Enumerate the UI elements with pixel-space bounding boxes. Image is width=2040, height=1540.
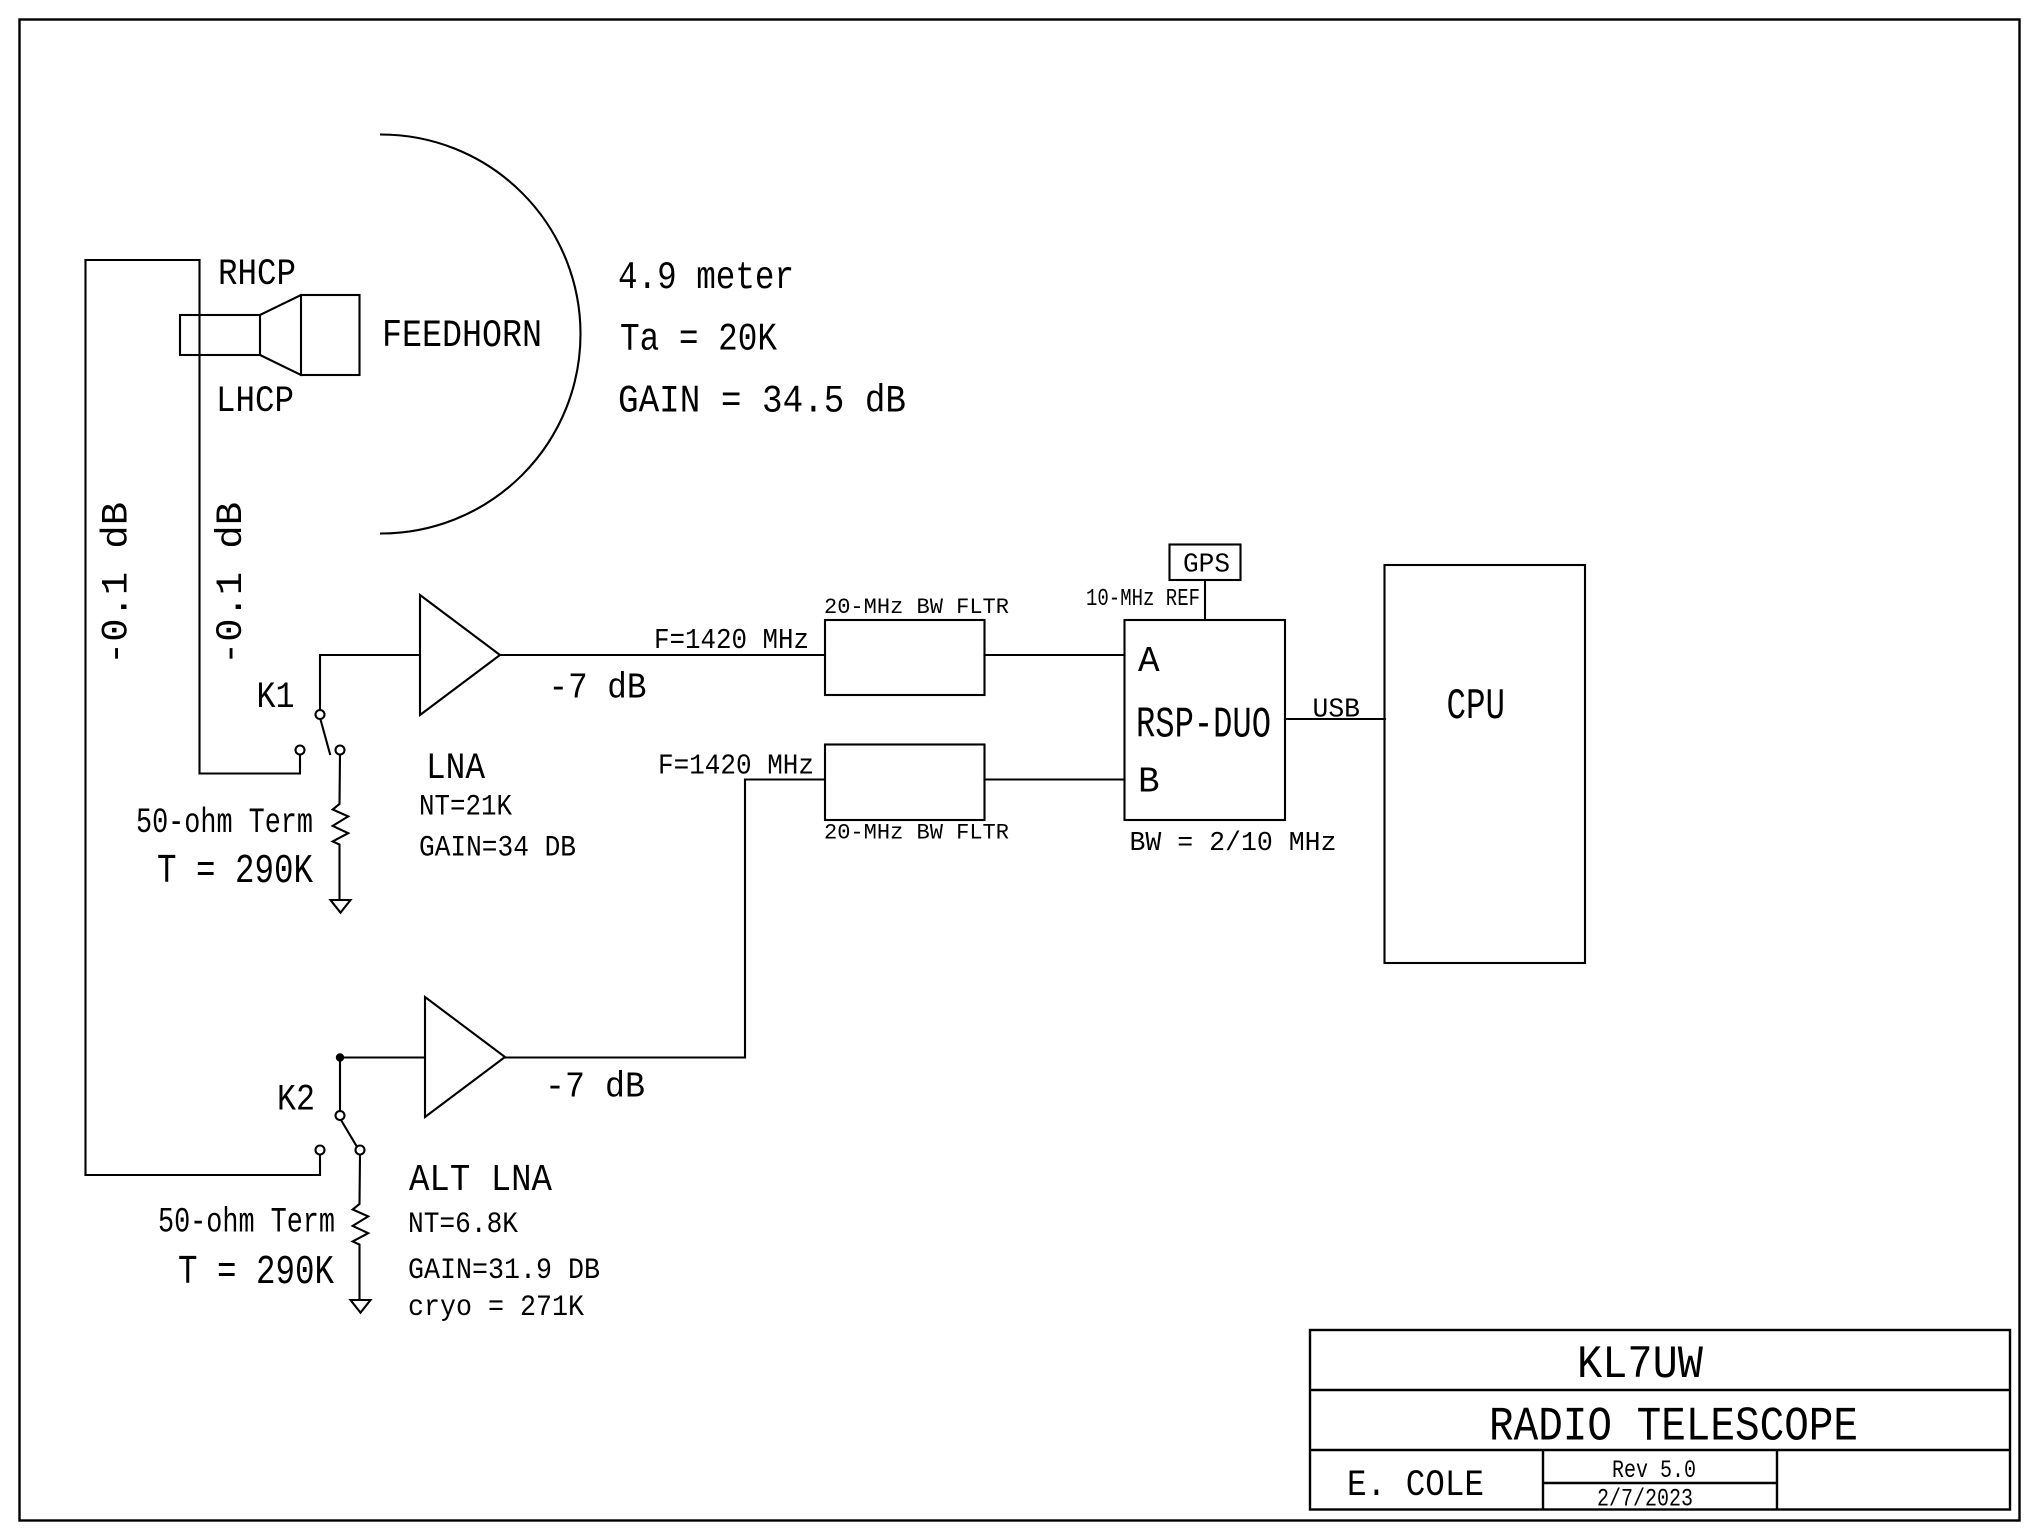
svg-text:ALT LNA: ALT LNA [409,1159,552,1202]
switch K1 right throw contact circle [336,746,345,755]
wire filter A to RSP input A [985,654,1125,656]
wire filter B to RSP input B [985,778,1125,780]
wire K2 common to junction [339,1058,341,1112]
filter box A (20-MHz BW FLTR) [825,620,985,695]
svg-text:FEEDHORN: FEEDHORN [382,314,542,358]
wire top bracket from RHCP/LHCP feed [86,259,200,261]
feedhorn mouth rectangle [301,295,360,375]
RSP-DUO receiver box [1125,620,1286,820]
wire amp2 output corner to filter B [745,780,825,1058]
switch K1 left throw contact circle [296,746,305,755]
svg-text:RSP-DUO: RSP-DUO [1136,701,1271,751]
wire amp1 output to filter A [500,654,825,656]
switch K1 common contact circle [316,710,325,719]
amplifier LNA triangle [420,595,500,715]
svg-text:RHCP: RHCP [218,254,296,296]
svg-text:10-MHz REF: 10-MHz REF [1086,586,1200,613]
wire LHCP vertical run (right) [198,260,200,774]
ground (K1 termination) [331,900,351,913]
svg-text:Ta = 20K: Ta = 20K [620,318,777,362]
wire amp1 input [320,654,420,656]
title block outer rectangle [1310,1330,2010,1510]
svg-text:GAIN=31.9 DB: GAIN=31.9 DB [408,1254,600,1288]
title block rev/date divider [1543,1482,1777,1484]
svg-text:T = 290K: T = 290K [178,1250,334,1296]
switch K2 arm [341,1120,357,1146]
svg-text:cryo = 271K: cryo = 271K [408,1291,584,1325]
switch K2 common contact circle [336,1111,345,1120]
node junction dot (K2 to amp2) [336,1053,344,1061]
switch K2 left throw contact circle [316,1146,325,1155]
svg-text:BW = 2/10 MHz: BW = 2/10 MHz [1130,829,1337,859]
svg-text:-0.1 dB: -0.1 dB [97,502,139,665]
amplifier ALT LNA triangle [425,997,505,1117]
svg-text:T = 290K: T = 290K [157,849,313,895]
svg-text:RADIO TELESCOPE: RADIO TELESCOPE [1489,1401,1858,1455]
GPS box [1170,545,1241,581]
svg-text:K1: K1 [257,677,295,719]
svg-text:20-MHz BW FLTR: 20-MHz BW FLTR [824,595,1009,620]
svg-text:GAIN=34 DB: GAIN=34 DB [419,832,576,866]
feedhorn flare bottom edge [260,355,301,375]
svg-text:2/7/2023: 2/7/2023 [1597,1485,1693,1514]
wire amp2 input [340,1056,425,1058]
svg-text:F=1420 MHz: F=1420 MHz [654,624,809,657]
svg-text:LNA: LNA [426,748,486,790]
svg-text:CPU: CPU [1447,682,1506,732]
svg-text:A: A [1138,641,1160,682]
svg-text:50-ohm Term: 50-ohm Term [158,1203,335,1243]
switch K2 right throw contact circle [356,1146,365,1155]
svg-text:-7 dB: -7 dB [549,668,647,709]
wire GPS to RSP-DUO ref input [1204,580,1206,620]
ground (K2 termination) [351,1300,371,1313]
wire K2 left throw stub to RHCP run [86,1155,321,1176]
feedhorn flare top edge [260,295,301,315]
title block row divider 1 [1310,1389,2010,1391]
svg-text:K2: K2 [277,1080,315,1122]
wire RHCP vertical run (left) [84,260,86,1175]
svg-text:LHCP: LHCP [216,381,294,423]
svg-text:GPS: GPS [1183,551,1230,581]
svg-text:B: B [1138,762,1160,803]
wire amp2 output [505,1056,745,1058]
CPU box [1385,565,1586,963]
svg-text:4.9 meter: 4.9 meter [618,256,794,300]
svg-text:-0.1 dB: -0.1 dB [211,502,253,665]
svg-text:KL7UW: KL7UW [1577,1339,1703,1391]
resistor R2 50-ohm termination [353,1155,369,1300]
parabolic dish arc [381,135,581,534]
feedhorn waveguide rectangle [180,315,260,355]
wire USB RSP-DUO to CPU [1285,718,1385,720]
title block column divider right [1776,1450,1778,1510]
svg-text:20-MHz BW FLTR: 20-MHz BW FLTR [824,821,1009,846]
svg-text:-7 dB: -7 dB [545,1067,645,1108]
wire K1 common to amp input [319,655,321,710]
svg-text:E. COLE: E. COLE [1347,1465,1484,1507]
svg-text:NT=6.8K: NT=6.8K [408,1208,518,1242]
switch K1 arm [321,720,331,755]
resistor R1 50-ohm termination [333,755,349,900]
title block row divider 2 [1310,1449,2010,1451]
svg-text:Rev 5.0: Rev 5.0 [1612,1456,1696,1485]
svg-text:50-ohm Term: 50-ohm Term [136,803,313,843]
filter box B (20-MHz BW FLTR) [825,745,985,821]
title block column divider left [1542,1450,1544,1510]
svg-text:NT=21K: NT=21K [419,791,512,825]
wire K1 left throw stub [200,755,301,774]
svg-text:F=1420 MHz: F=1420 MHz [658,750,814,783]
svg-text:GAIN = 34.5 dB: GAIN = 34.5 dB [618,380,906,424]
svg-text:USB: USB [1313,696,1361,726]
